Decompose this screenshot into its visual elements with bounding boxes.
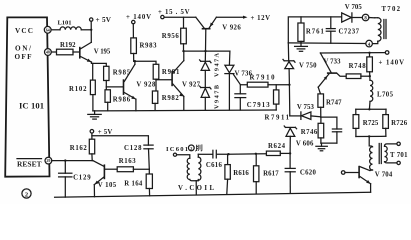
svg-text:T702: T702 [382, 6, 401, 13]
junction L101/+5V [90, 29, 92, 31]
node RESET pin 29 [45, 157, 52, 164]
node IC601 pin2 terminal [173, 153, 176, 156]
transformer T701 core [379, 144, 381, 164]
ground below R761 [295, 43, 308, 51]
label ON/OFF [15, 45, 33, 62]
svg-text:R7911: R7911 [265, 115, 290, 122]
svg-text:VCC: VCC [15, 27, 33, 35]
wire +15.5V rail [164, 16, 196, 18]
junction R616 top [227, 153, 229, 155]
svg-text:R617: R617 [263, 171, 279, 178]
resistor R7911 [274, 85, 279, 110]
node +5V terminal bottom [90, 129, 112, 136]
ground below R746 [316, 143, 327, 151]
node +5V terminal top [90, 16, 112, 24]
junction R983/V928 collector [134, 60, 136, 62]
svg-text:48: 48 [46, 50, 50, 55]
resistor R725 [353, 109, 359, 136]
transistor V733 [318, 53, 346, 87]
svg-text:R956: R956 [162, 33, 180, 40]
svg-text:ON/: ON/ [15, 45, 32, 53]
svg-text:+ 5V: + 5V [96, 16, 112, 24]
resistor R956 [181, 17, 187, 51]
svg-text:R192: R192 [60, 42, 76, 49]
resistor R162 [89, 136, 94, 161]
capacitor C7237 [326, 17, 335, 43]
node +15.5V terminal [158, 9, 190, 19]
svg-text:L705: L705 [377, 92, 394, 99]
svg-text:V947A: V947A [214, 52, 221, 77]
junction R748 bottom node [369, 75, 371, 77]
resistor R981 [153, 64, 159, 91]
capacitor beside R746 [332, 117, 341, 143]
node T701 secondary terminals [397, 142, 400, 164]
svg-text:R162: R162 [70, 145, 88, 152]
op-amp U1 : IC101 box outline [5, 17, 49, 176]
svg-text:R983: R983 [140, 42, 158, 49]
wire node to cap column [321, 116, 337, 118]
wire R725/R726 top rail [356, 108, 386, 110]
resistor R983 [131, 24, 137, 61]
resistor R748 [367, 53, 373, 76]
svg-text:V 753: V 753 [297, 104, 315, 111]
node T702 pin 8 [362, 14, 369, 22]
capacitor C7913 [235, 85, 246, 110]
junction T701 top [368, 135, 370, 137]
transformer T701 secondary [385, 144, 397, 163]
resistor R726 [383, 109, 389, 136]
junction R748 top [368, 52, 370, 54]
wire ground bus y110 [93, 109, 276, 112]
junction C620 top [289, 152, 291, 154]
resistor R746 [318, 117, 324, 143]
wire R983 node to R981 [134, 61, 156, 64]
svg-text:R 164: R 164 [124, 181, 143, 188]
svg-text:64: 64 [46, 27, 50, 32]
svg-text:+ 12V: + 12V [251, 15, 271, 22]
zener diode V750 [283, 43, 295, 85]
svg-text:C616: C616 [206, 162, 223, 169]
transistor V105 [93, 161, 117, 197]
node circled 2 page marker [22, 189, 31, 198]
transistor V195 [79, 42, 91, 62]
svg-text:R725: R725 [363, 120, 379, 127]
coil V.COIL [177, 154, 201, 195]
resistor R163 [117, 167, 149, 172]
wire top-right rail from corner to V705 [288, 17, 341, 43]
transistor V926 [196, 17, 217, 51]
svg-text:V 195: V 195 [94, 49, 111, 56]
label RESET with overline [17, 159, 42, 169]
wire bottom rail of T702 cell [288, 42, 366, 45]
resistor R747 [318, 87, 324, 117]
svg-text:R726: R726 [391, 120, 408, 127]
transistor V704 [345, 166, 371, 192]
resistor R616 [225, 154, 230, 194]
capacitor C620 [285, 153, 295, 193]
svg-text:C7237: C7237 [339, 29, 360, 36]
wire mid row to R617 [229, 153, 267, 156]
zener diode V947A [200, 51, 211, 87]
svg-text:+ 140V: + 140V [126, 14, 151, 21]
resistor base series V733 [346, 74, 370, 79]
wire +5V bottom rail to C128 [92, 133, 148, 145]
node T702 pin 4 [366, 40, 373, 48]
svg-text:C7913: C7913 [247, 102, 271, 109]
inductor L101 [51, 27, 91, 30]
svg-text:IC 101: IC 101 [19, 101, 44, 111]
junction R617 top [255, 153, 257, 155]
wire R746 bottom rail [321, 142, 337, 144]
junction R7910/V750 node [288, 84, 290, 86]
svg-text:OFF: OFF [15, 53, 33, 61]
svg-text:V . C O I L: V . C O I L [178, 185, 214, 192]
junction R956 bus [182, 50, 184, 52]
svg-text:V 704: V 704 [375, 172, 393, 179]
wire zener bus y51 [184, 50, 230, 52]
svg-text:R981: R981 [162, 69, 180, 76]
svg-text:C128: C128 [124, 145, 142, 152]
svg-text:R761: R761 [306, 29, 325, 36]
wire +140V rail right [320, 52, 385, 54]
svg-text:V 750: V 750 [299, 62, 317, 69]
svg-text:R163: R163 [119, 158, 137, 165]
svg-text:V 928: V 928 [136, 81, 156, 88]
svg-text:V947B: V947B [214, 85, 221, 109]
transistor V927 [171, 51, 184, 110]
wire +12V output with arrow [216, 16, 247, 19]
junction V926 base bus [204, 50, 206, 52]
svg-text:C129: C129 [73, 175, 91, 182]
svg-text:29: 29 [46, 158, 50, 163]
svg-text:R624: R624 [268, 143, 286, 150]
resistor R985 [104, 66, 109, 90]
svg-text:R986: R986 [113, 97, 131, 104]
svg-text:R7910: R7910 [250, 74, 276, 81]
svg-text:IC601: IC601 [166, 146, 188, 153]
wire V750 node down to V753 node [288, 85, 290, 116]
ground symbol left [88, 111, 101, 119]
capacitor C128 [144, 145, 153, 169]
svg-text:R102: R102 [69, 86, 87, 93]
label IC601 pin2 [166, 145, 202, 153]
node V704 base terminal [341, 171, 345, 175]
capacitor C616 [198, 150, 228, 158]
capacitor C129 [59, 161, 72, 198]
resistor R982 [152, 91, 157, 110]
wire RESET row [52, 160, 93, 162]
resistor R164 [146, 169, 152, 196]
svg-text:T 701: T 701 [390, 152, 408, 159]
node VCC pin 64 [44, 26, 51, 33]
transformer T701 primary [369, 136, 372, 170]
wire R725/R726 bottom rail [356, 135, 386, 137]
svg-text:V 705: V 705 [345, 4, 363, 11]
node +140V terminal top mid [126, 14, 151, 24]
svg-text:V 733: V 733 [324, 59, 342, 66]
transistor V928 [123, 61, 136, 110]
svg-text:R748: R748 [349, 63, 367, 70]
diode V753 [290, 112, 321, 120]
svg-text:V 606: V 606 [296, 141, 314, 148]
resistor R986 [105, 90, 110, 111]
zener diode V947B [200, 86, 211, 110]
resistor R761 [298, 17, 304, 43]
wire +5V vertical to V195 collector [90, 21, 92, 42]
resistor R624 [266, 151, 290, 155]
zener diode V606 [284, 126, 296, 154]
wire V928 base [106, 86, 122, 88]
svg-text:V 105: V 105 [98, 182, 117, 189]
wire V195 emitter to R985 [91, 62, 106, 66]
svg-text:V 926: V 926 [222, 25, 241, 32]
resistor R617 [254, 154, 259, 194]
resistor R7910 [247, 82, 289, 87]
thyristor V736 [225, 51, 247, 110]
inductor L705 [369, 76, 372, 109]
junction L705 bottom [368, 108, 370, 110]
node +140V terminal right [379, 51, 405, 67]
svg-text:+ 5V: + 5V [98, 129, 113, 136]
transformer T702 winding [369, 18, 386, 44]
svg-text:R747: R747 [326, 99, 342, 106]
svg-text:RESET: RESET [17, 160, 42, 169]
wire V927 base [156, 79, 171, 81]
svg-text:C620: C620 [300, 169, 317, 176]
junction C129 top [64, 159, 66, 161]
resistor R192 [51, 49, 79, 55]
node ON/OFF pin 48 [45, 49, 52, 56]
svg-text:R982: R982 [162, 95, 180, 102]
svg-text:L101: L101 [58, 20, 72, 27]
svg-text:+ 140V: + 140V [379, 59, 405, 66]
wire bottom ground bus [55, 192, 371, 197]
svg-text:2: 2 [25, 191, 28, 198]
svg-text:R746: R746 [301, 129, 318, 136]
resistor R102 [90, 63, 95, 111]
svg-text:V 927: V 927 [182, 82, 201, 89]
svg-text:+ 15 . 5V: + 15 . 5V [158, 9, 190, 16]
diode V705 [342, 13, 363, 22]
svg-text:R616: R616 [233, 170, 249, 177]
